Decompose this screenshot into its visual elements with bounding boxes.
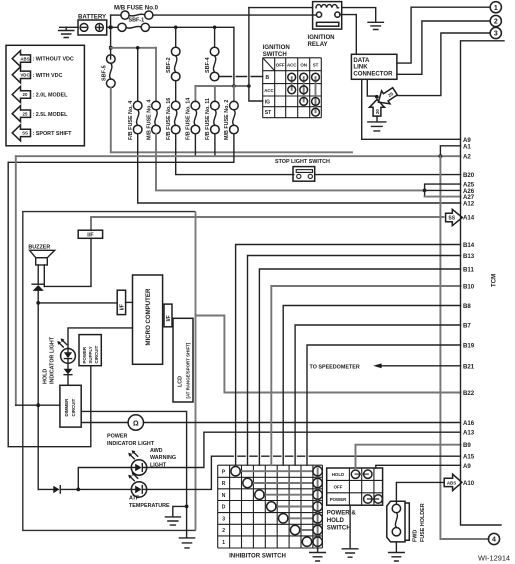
ground meter internal: [165, 506, 186, 525]
connector circle 1: [490, 2, 501, 13]
wire I/F to buzzer lead: [44, 238, 91, 286]
wire fuse bus y86: [195, 85, 249, 87]
wire A15 hop gaps: [234, 455, 237, 458]
wire to fuse M/B No.0: [111, 14, 121, 16]
interface I/F meter top: [78, 230, 102, 238]
wire grid 1 to TCM B19: [307, 345, 461, 465]
fuse SBF-1: [118, 18, 149, 32]
wire A14 line: [91, 217, 444, 230]
wire battery plus to junction: [107, 26, 111, 28]
svg-text:B10: B10: [463, 284, 475, 291]
wire bus drop to M/B No.2: [233, 86, 235, 101]
wire A1 to TCM: [440, 146, 460, 156]
wire M/B No.2 to meter rail A: [8, 134, 234, 163]
wire A25 A26 A27 bracket: [425, 184, 461, 197]
svg-text:A10: A10: [463, 480, 475, 487]
svg-text:HOLD: HOLD: [327, 517, 345, 524]
node LED feed: [76, 488, 80, 492]
svg-text:IG: IG: [265, 99, 270, 105]
svg-text:TCM: TCM: [491, 274, 498, 287]
micro computer U1: [133, 275, 163, 364]
wire feed to AWD LED: [78, 468, 131, 490]
svg-text:ON: ON: [300, 62, 307, 67]
wire A2 line: [16, 155, 461, 157]
ground data link connector: [368, 122, 386, 131]
svg-text:B22: B22: [463, 390, 475, 397]
wire power switch to TCM A9: [376, 465, 461, 468]
node A1/A2 junction: [439, 154, 443, 158]
svg-text:ACC: ACC: [287, 62, 297, 67]
wire dimmer to power indicator: [81, 422, 128, 424]
svg-text:: WITHOUT VDC: : WITHOUT VDC: [33, 57, 74, 63]
hold indicator light LED: [43, 336, 76, 384]
wire B21 to speedometer: [310, 363, 461, 370]
svg-text:ABS: ABS: [447, 480, 456, 485]
wire AWD LED to TCM A13: [147, 432, 461, 467]
wire relay coil to ground: [342, 8, 376, 23]
wire F/B No.16 to stop light switch: [176, 134, 294, 175]
ignition switch table: [263, 44, 322, 118]
legend symbol 20: [12, 87, 68, 103]
svg-text:B14: B14: [463, 242, 475, 249]
wire DLC pin to arrow node: [367, 79, 375, 96]
wire hold switch to TCM B9: [356, 445, 461, 468]
svg-text:CIRCUIT: CIRCUIT: [71, 398, 76, 416]
wire SBF-5 output to A1 bus: [111, 88, 352, 153]
wire ignition switch feed rail: [249, 8, 263, 101]
wire ATF LED to TCM A15: [147, 456, 461, 489]
svg-text:D: D: [222, 505, 226, 511]
svg-text:B19: B19: [463, 343, 475, 350]
interface I/F 2: [117, 290, 125, 314]
legend symbol VDC: [12, 67, 62, 83]
ground ignition relay: [368, 22, 383, 29]
svg-text:SS: SS: [448, 215, 455, 221]
node SBF-4 tap: [213, 26, 217, 30]
wire buzzer rail down: [37, 303, 39, 490]
battery ground: [59, 27, 74, 37]
wire DLC to connector 1: [397, 7, 490, 63]
svg-text:LCD: LCD: [178, 376, 184, 387]
svg-text:1: 1: [222, 540, 225, 546]
svg-text:A12: A12: [463, 201, 475, 208]
TCM connector bracket: [461, 41, 505, 525]
svg-text:A16: A16: [463, 420, 475, 427]
data link connector: [351, 54, 397, 79]
wire relay output to data link connector: [340, 15, 356, 55]
dimmer circuit: [60, 385, 81, 427]
svg-text:WARNING: WARNING: [150, 455, 176, 461]
stop light switch: [275, 159, 330, 181]
svg-text:M/B FUSE No.0: M/B FUSE No.0: [114, 4, 159, 11]
buzzer: [28, 245, 54, 287]
svg-text:INDICATOR LIGHT: INDICATOR LIGHT: [50, 336, 56, 384]
svg-text:OFF: OFF: [334, 485, 343, 490]
wire 20 arrow to ground: [376, 116, 378, 122]
wire grid D to TCM B10: [271, 286, 460, 465]
wire F/B No.4 to TCM A12: [138, 134, 461, 203]
node battery junction 2: [109, 46, 113, 50]
svg-text:POWER &: POWER &: [327, 510, 357, 517]
wire M/B No.4 to A26 node: [156, 134, 425, 191]
wire grid 3 to TCM B8: [283, 306, 460, 466]
svg-text:HOLD: HOLD: [332, 472, 344, 477]
svg-text:B8: B8: [463, 303, 471, 310]
node buzzer rail: [36, 301, 40, 305]
arrow 25: [374, 85, 399, 109]
svg-text:1: 1: [494, 5, 498, 12]
node fuse bus No.2: [232, 84, 236, 88]
svg-text:CIRCUIT: CIRCUIT: [94, 345, 99, 363]
fuse SBF-5: [102, 55, 116, 88]
svg-text:20: 20: [23, 92, 28, 97]
svg-text:2: 2: [222, 528, 225, 534]
wire bus drop to F/B No.14: [194, 86, 196, 101]
svg-text:B20: B20: [463, 172, 475, 179]
svg-text:25: 25: [23, 111, 28, 116]
svg-text:A15: A15: [463, 454, 475, 461]
svg-text:2: 2: [494, 19, 498, 26]
svg-text:FWD: FWD: [413, 530, 419, 542]
svg-text:: SPORT SHIFT: : SPORT SHIFT: [33, 131, 73, 137]
AWD warning light LED: [128, 448, 176, 475]
svg-text:: WITH VDC: : WITH VDC: [33, 73, 63, 79]
wire SBF-2 to F/B No.16: [175, 81, 177, 102]
svg-text:TEMPERATURE: TEMPERATURE: [129, 503, 170, 509]
fuse SBF-4: [205, 27, 219, 80]
fuse F/B FUSE No. 11: [205, 98, 219, 140]
wire DLC pin to A9 corner: [361, 79, 363, 139]
power indicator light lamp: [107, 415, 155, 447]
svg-text:SBF-2: SBF-2: [166, 57, 172, 73]
wire dimmer to ground rail: [81, 411, 186, 538]
legend box: [6, 45, 84, 146]
svg-text:SS: SS: [22, 131, 28, 136]
arrow ABS: [444, 474, 462, 490]
svg-text:R: R: [222, 481, 226, 487]
power and hold switch: [327, 468, 383, 532]
wire grid P to TCM B14: [236, 245, 461, 466]
svg-text:SBF-4: SBF-4: [205, 57, 211, 73]
FWD fuse holder: [387, 501, 426, 542]
legend symbol 25: [12, 106, 68, 122]
svg-text:DIMMER: DIMMER: [64, 398, 69, 417]
svg-text:IGNITION: IGNITION: [308, 34, 335, 41]
ground power and hold switch: [342, 505, 358, 557]
svg-text:SUPPLY: SUPPLY: [88, 346, 93, 363]
svg-text:B7: B7: [463, 323, 471, 330]
svg-text:A14: A14: [463, 215, 475, 222]
svg-text:3: 3: [494, 31, 498, 38]
svg-text:SWITCH: SWITCH: [263, 51, 287, 58]
svg-text:AWD: AWD: [150, 448, 163, 454]
svg-text:POWER: POWER: [82, 346, 87, 363]
svg-text:MICRO COMPUTER: MICRO COMPUTER: [145, 288, 152, 345]
svg-text:POWER: POWER: [107, 434, 127, 440]
wire power indicator to TCM A16: [144, 422, 461, 424]
svg-text:IGNITION: IGNITION: [263, 44, 290, 51]
wire SBF-1 bus drop to fuse bus: [233, 27, 235, 86]
svg-text:A13: A13: [463, 430, 475, 437]
interface I/F 3: [164, 304, 172, 327]
wire rail A to power supply circuit: [8, 162, 91, 446]
svg-text:P: P: [222, 469, 226, 475]
wire SBF-4 to ignition switch B row: [219, 76, 263, 78]
node F/B fuse No.4 feed: [136, 46, 140, 50]
svg-text:CONNECTOR: CONNECTOR: [353, 70, 393, 77]
wire DLC to connector 2: [397, 21, 490, 74]
fuse F/B FUSE No. 16: [166, 98, 180, 140]
svg-text:RELAY: RELAY: [308, 41, 328, 48]
svg-text:[AT RANGE/SPORT SHIFT]: [AT RANGE/SPORT SHIFT]: [186, 342, 191, 398]
inhibitor switch contacts P-1: [231, 467, 312, 547]
inhibitor switch grid: [218, 465, 323, 548]
wire relay coil feed: [249, 7, 313, 9]
svg-text:TO SPEEDOMETER: TO SPEEDOMETER: [310, 364, 360, 370]
svg-text:N: N: [222, 493, 226, 499]
svg-text:STOP LIGHT SWITCH: STOP LIGHT SWITCH: [275, 159, 330, 165]
connector circle 4: [488, 533, 499, 544]
svg-text:OFF: OFF: [276, 62, 285, 67]
wire hold LED to micro computer: [68, 328, 133, 349]
wire A9 line to TCM: [362, 138, 461, 140]
ground meter external: [179, 538, 194, 548]
wire connector 3 to arrow 25: [397, 33, 491, 96]
svg-text:4: 4: [492, 537, 496, 544]
svg-text:I/F: I/F: [120, 303, 126, 310]
connector circle 3: [490, 27, 501, 38]
svg-text:ATF: ATF: [129, 496, 140, 502]
diode buzzer: [32, 284, 44, 303]
fuse M/B FUSE No. 4: [146, 100, 160, 140]
svg-text:: 2.5L MODEL: : 2.5L MODEL: [33, 112, 69, 118]
wire B row hop gaps: [232, 75, 235, 78]
wire fuse No.0 to relay: [153, 14, 317, 16]
svg-text:VDC: VDC: [20, 73, 30, 78]
svg-text:POWER: POWER: [330, 497, 347, 502]
svg-text:SBF-1: SBF-1: [129, 18, 145, 24]
fuse M/B FUSE No.0: [114, 4, 159, 19]
node SBF-2 tap: [174, 26, 178, 30]
svg-text:A1: A1: [463, 143, 471, 150]
svg-text:I/F: I/F: [166, 315, 172, 322]
svg-text:ACC: ACC: [264, 88, 274, 93]
wire FWD holder to ABS arrow: [396, 482, 444, 504]
wire grid 2 to TCM B7: [295, 325, 460, 465]
wire battery to ground: [60, 26, 78, 28]
svg-text:ST: ST: [313, 62, 319, 67]
meter box: [23, 212, 196, 531]
wire feed M/B No.4: [155, 48, 157, 102]
battery B1: [78, 14, 107, 36]
connector circle 2: [490, 15, 501, 26]
svg-text:A2: A2: [463, 154, 471, 161]
wire grid R to TCM B13: [248, 256, 461, 466]
wire battery rail up/down: [110, 15, 112, 59]
svg-text:FUSE HOLDER: FUSE HOLDER: [420, 503, 426, 542]
wire grid N to TCM B11: [259, 269, 460, 465]
wire inhibitor output column: [317, 469, 319, 548]
svg-text:Ω: Ω: [133, 421, 139, 428]
svg-text:3: 3: [222, 517, 225, 523]
svg-text:B21: B21: [463, 363, 475, 370]
wire main gray vertical to connector 4: [440, 156, 488, 539]
node A26 split: [423, 189, 427, 193]
node dimmer rail: [36, 403, 40, 407]
svg-text:INDICATOR LIGHT: INDICATOR LIGHT: [107, 441, 155, 447]
wire feed F/B No.4: [137, 48, 139, 102]
wire rail B to dimmer: [16, 404, 60, 406]
ground inhibitor switch: [310, 548, 326, 561]
inhibitor switch contact links: [240, 471, 313, 542]
svg-text:B: B: [266, 75, 270, 81]
wire I/F 2 to micro computer: [126, 301, 133, 303]
wire F/B No.14 to A2 line: [194, 134, 196, 156]
ATF temperature LED: [128, 472, 170, 509]
svg-text:SBF-5: SBF-5: [102, 65, 108, 81]
fuse F/B FUSE No. 14: [186, 98, 200, 140]
svg-text:20: 20: [375, 109, 380, 114]
inhibitor switch output contacts: [313, 467, 322, 547]
ignition relay: [308, 2, 342, 48]
wire battery to fuse row feeds: [111, 47, 156, 49]
fuse SBF-2: [166, 27, 180, 80]
ground FWD fuse holder: [389, 542, 405, 561]
power supply circuit: [79, 335, 101, 366]
arrow SS: [446, 209, 463, 225]
fuse M/B FUSE No. 2: [224, 100, 238, 140]
svg-text:B9: B9: [463, 442, 471, 449]
svg-text:B11: B11: [463, 267, 474, 274]
wire LCD to B22: [196, 316, 461, 393]
svg-text:INHIBITOR SWITCH: INHIBITOR SWITCH: [229, 552, 286, 559]
diode ATF feed: [38, 486, 78, 493]
node ignition feed: [247, 84, 251, 88]
svg-text:HOLD: HOLD: [43, 369, 49, 384]
svg-text:: 2.0L MODEL: : 2.0L MODEL: [33, 93, 69, 99]
node ground rail: [185, 505, 189, 509]
legend symbol ABS: [12, 51, 74, 67]
svg-text:SWITCH: SWITCH: [327, 525, 351, 532]
svg-text:A9: A9: [463, 463, 471, 470]
wire rail to I/F 2: [38, 302, 117, 304]
node battery junction: [109, 26, 113, 30]
legend symbol SS: [12, 125, 72, 141]
fuse F/B FUSE No. 4: [128, 101, 142, 140]
wire rail B A2 to dimmer: [15, 156, 17, 405]
arrow 20: [370, 100, 385, 117]
wire F/B No.11 to A2 line: [214, 134, 216, 156]
wire feed to ATF LED: [78, 488, 131, 490]
wire A27: [425, 196, 461, 198]
svg-text:ABS: ABS: [20, 56, 29, 61]
node arrow junction: [375, 95, 379, 99]
diode hold indicator: [64, 363, 73, 385]
wire SBF-1 bus: [111, 26, 234, 28]
svg-text:WI-12914: WI-12914: [478, 554, 510, 563]
svg-text:ST: ST: [265, 110, 271, 116]
svg-text:B13: B13: [463, 253, 475, 260]
LCD display: [173, 318, 193, 402]
wire stop light switch to TCM B20: [316, 174, 461, 176]
wire bus drop to F/B No.11: [214, 86, 216, 101]
